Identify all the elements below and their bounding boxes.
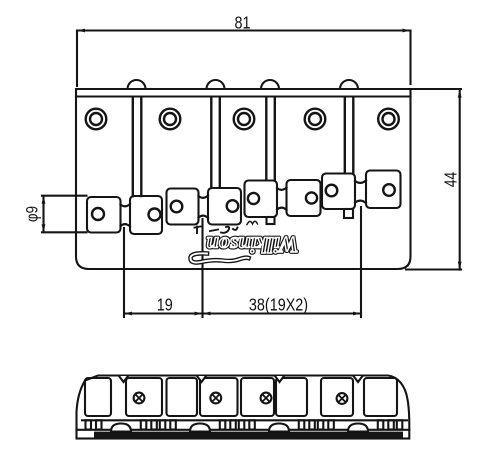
small flipped mark near saddle 3 — [247, 221, 258, 224]
saddle 3 left hole — [248, 193, 259, 204]
saddle 3 screw tab — [267, 217, 275, 224]
intonation screw 3 shaft — [266, 97, 275, 180]
svg-text:φ9: φ9 — [23, 206, 42, 222]
mounting hole 1 — [86, 109, 107, 130]
saddle 3 left block — [245, 181, 278, 218]
front saddle block 2 — [126, 378, 162, 416]
front saddle block 3 — [167, 378, 198, 416]
front string notch 3 — [275, 376, 284, 382]
dimension 44 arrow bottom — [458, 262, 462, 270]
intonation screw 1 shaft — [133, 97, 142, 196]
saddle 2 waist — [199, 196, 209, 219]
front string notch 4 — [354, 376, 363, 382]
dimension 81 arrow right — [403, 29, 411, 33]
saddle 4 right block — [366, 171, 401, 209]
dimension 81 arrow left — [77, 29, 85, 33]
base plate outline — [76, 89, 411, 269]
front view outline — [77, 376, 410, 431]
Wilkinson logo (rotated 180) — [206, 233, 298, 258]
dimension 19 arrow right — [195, 312, 203, 316]
dimension 44 extension line bottom — [406, 268, 461, 270]
mounting hole 5 — [378, 109, 399, 130]
front saddle block 5 — [241, 378, 274, 416]
saddle 2 right hole — [227, 200, 239, 212]
saddle 1 left hole — [92, 208, 104, 220]
string screw bump 4 — [340, 80, 358, 89]
svg-text:38(19X2): 38(19X2) — [249, 295, 308, 315]
front feet pair 3 — [160, 420, 166, 429]
front feet pair 7 — [318, 420, 324, 429]
saddle 3 right block — [287, 180, 321, 216]
front string notch 1 — [119, 376, 128, 382]
front feet pair 4 — [220, 420, 226, 429]
front screw 1 — [134, 393, 145, 404]
front base bar dark band — [94, 432, 403, 438]
front saddle block 6 — [276, 378, 307, 416]
front feet pair 5 — [239, 420, 245, 429]
dimension 44 line — [459, 90, 461, 270]
front string arch 1 — [111, 424, 131, 432]
intonation screw 4 shaft — [345, 97, 354, 173]
mounting hole 3 — [234, 109, 255, 130]
front base bar — [77, 430, 410, 439]
phi9 extension line top — [42, 195, 87, 197]
front feet pair 8 — [378, 420, 384, 429]
saddle 1 waist — [121, 204, 131, 227]
mounting hole 4 — [305, 109, 326, 130]
front string notch 2 — [197, 376, 206, 382]
front feet pair 6 — [299, 420, 305, 429]
saddle 4 screw tab — [344, 209, 353, 218]
front feet pair 2 — [141, 420, 147, 429]
intonation screw 2 shaft — [211, 97, 220, 188]
dimension 44 extension line top — [412, 88, 461, 90]
string 4 extension line — [360, 207, 362, 317]
svg-text:19: 19 — [157, 295, 173, 315]
dimension 19 arrow left — [124, 312, 132, 316]
saddle 1 left block — [87, 197, 121, 233]
saddle 3 waist — [277, 188, 287, 211]
dimension 81 extension line right — [409, 31, 411, 84]
saddle 1 right block — [130, 196, 162, 234]
string 2 extension line — [201, 219, 203, 317]
phi9 arrow bottom — [42, 224, 46, 232]
saddle 2 right block — [208, 188, 241, 225]
plate lip line — [76, 95, 411, 97]
front screw 2 — [210, 393, 221, 404]
svg-text:44: 44 — [442, 172, 461, 187]
string screw bump 2 — [207, 80, 225, 89]
phi9 dimension line — [42, 196, 44, 232]
dimension 19/38 line — [124, 312, 361, 314]
dimension 38 arrow right — [353, 312, 361, 316]
dimension 44 arrow top — [458, 90, 462, 98]
svg-text:Wilkinson: Wilkinson — [206, 233, 298, 258]
saddle 4 right hole — [383, 184, 395, 196]
string 1 extension line — [123, 228, 125, 317]
phi9 arrow top — [42, 196, 46, 204]
svg-text:81: 81 — [234, 13, 250, 33]
saddle 4 left block — [322, 174, 355, 210]
dimension 38 arrow left — [203, 312, 211, 316]
mounting hole 2 — [160, 109, 181, 130]
front string arch 4 — [348, 424, 368, 432]
string screw bump 3 — [261, 80, 279, 89]
saddle 4 waist — [355, 181, 366, 204]
front feet pair 1 — [86, 420, 92, 429]
phi9 extension line bottom — [42, 231, 87, 233]
saddle 2 left block — [167, 189, 199, 225]
Wilkinson trademark marks — [195, 227, 238, 234]
front saddle block 4 — [200, 378, 238, 416]
Wilkinson logo swash — [190, 253, 248, 262]
front saddle block 8 — [364, 378, 397, 416]
front feet pair 9 — [397, 420, 403, 429]
front feet rail — [82, 419, 407, 421]
saddle 4 left hole — [326, 185, 338, 197]
dimension 81 extension line left — [76, 31, 78, 86]
front screw 3 — [261, 393, 272, 404]
string screw bump 1 — [128, 80, 146, 89]
saddle 1 right hole — [149, 209, 161, 221]
front saddle block 7 — [321, 378, 353, 416]
front saddle block 1 — [85, 378, 111, 416]
saddle 3 right hole — [306, 192, 317, 203]
Wilkinson logo swash core — [190, 253, 248, 262]
dimension 81 line — [77, 29, 411, 31]
saddle 2 left hole — [171, 201, 183, 213]
front screw 4 — [337, 393, 348, 404]
front string arch 2 — [190, 424, 210, 432]
front string arch 3 — [269, 424, 289, 432]
